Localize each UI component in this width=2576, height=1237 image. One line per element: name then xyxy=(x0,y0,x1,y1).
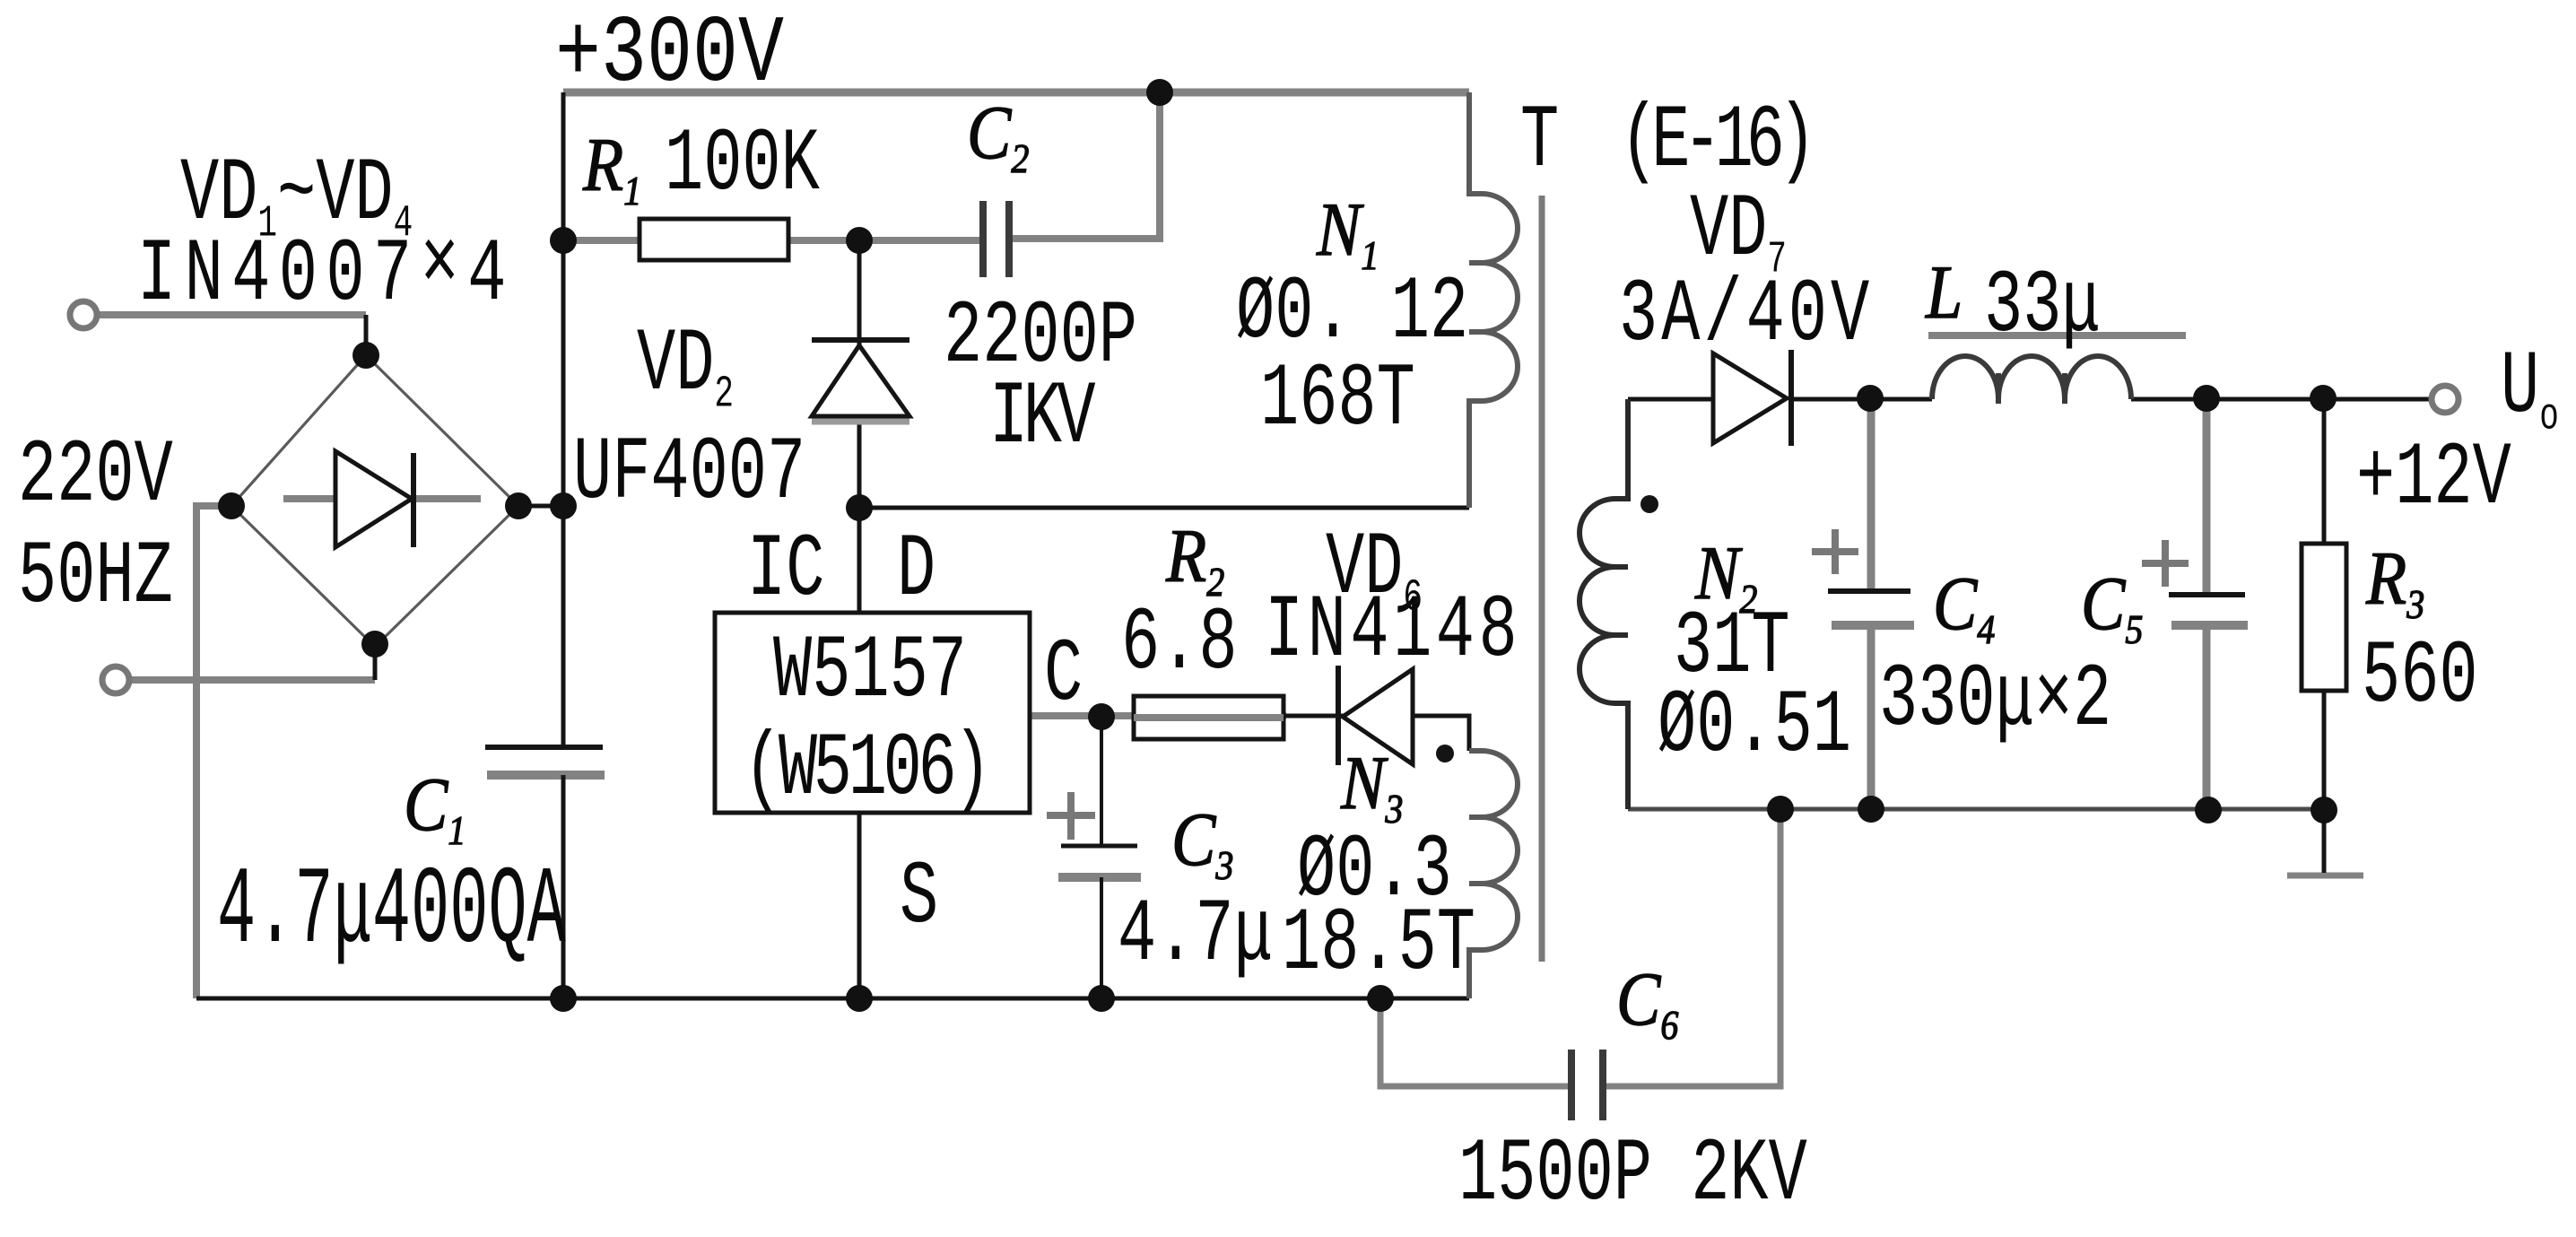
svg-text:L: L xyxy=(1925,250,1962,335)
svg-text:50HZ: 50HZ xyxy=(18,528,173,629)
svg-text:D: D xyxy=(897,521,936,622)
svg-text:+300V: +300V xyxy=(555,1,784,109)
svg-text:33μ: 33μ xyxy=(1984,257,2101,358)
svg-text:4.7μ: 4.7μ xyxy=(1118,886,1273,987)
svg-text:(W5106): (W5106) xyxy=(744,720,988,821)
svg-text:100K: 100K xyxy=(665,116,820,216)
svg-text:W5157: W5157 xyxy=(773,623,967,723)
svg-text:IC: IC xyxy=(747,521,824,622)
svg-text:IKV: IKV xyxy=(989,369,1096,469)
svg-text:4.7μ400QA: 4.7μ400QA xyxy=(217,850,566,975)
svg-text:18.5T: 18.5T xyxy=(1282,895,1475,996)
svg-text:168T: 168T xyxy=(1260,351,1415,451)
svg-text:(E-16): (E-16) xyxy=(1620,92,1809,193)
svg-text:330μ×2: 330μ×2 xyxy=(1879,651,2111,752)
svg-text:IN4007×4: IN4007×4 xyxy=(137,216,515,327)
svg-text:+12V: +12V xyxy=(2356,430,2511,530)
svg-text:Ø0. 12: Ø0. 12 xyxy=(1236,264,1468,364)
svg-text:1500P 2KV: 1500P 2KV xyxy=(1458,1126,1807,1226)
svg-text:Ø0.51: Ø0.51 xyxy=(1658,677,1851,778)
svg-text:UF4007: UF4007 xyxy=(573,424,805,525)
svg-text:3A/40V: 3A/40V xyxy=(1619,266,1873,367)
svg-text:6.8: 6.8 xyxy=(1121,595,1238,695)
svg-text:IN4148: IN4148 xyxy=(1265,582,1521,683)
svg-text:T: T xyxy=(1520,92,1559,193)
svg-text:560: 560 xyxy=(2362,628,2478,728)
svg-text:220V: 220V xyxy=(18,427,173,527)
svg-text:C: C xyxy=(1044,626,1083,727)
svg-text:S: S xyxy=(900,849,938,949)
